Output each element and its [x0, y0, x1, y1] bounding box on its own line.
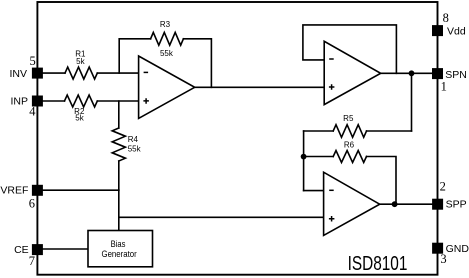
pin pad SPN (1): [432, 68, 443, 79]
op-amp U1: [139, 56, 195, 118]
svg-text:R3: R3: [160, 20, 171, 29]
svg-text:SPP: SPP: [446, 199, 467, 211]
Bias Generator box: [88, 231, 153, 267]
U2 plus sign: [329, 84, 335, 90]
resistor R3: [151, 32, 184, 45]
pin pad CE (7): [32, 244, 43, 255]
pin pad GND (3): [432, 243, 443, 254]
svg-text:55k: 55k: [128, 145, 142, 154]
svg-text:INV: INV: [9, 68, 27, 80]
resistor R5: [333, 125, 366, 138]
U3 minus sign: [329, 189, 334, 191]
wire R5 horizontal leads: [304, 130, 412, 132]
wire VREF node down to Bias Generator: [118, 190, 120, 230]
wire VREF pin to R4 bottom node: [43, 189, 119, 191]
U1 minus sign: [144, 71, 149, 73]
wire INV input to op-amp U1 inverting input: [43, 72, 139, 74]
svg-text:3: 3: [440, 252, 446, 266]
wire R3 feedback: from U1 inverting node up and across to U1 output: [119, 39, 211, 88]
svg-text:Vdd: Vdd: [447, 26, 466, 38]
U2 minus sign: [329, 58, 334, 60]
svg-text:CE: CE: [14, 244, 29, 256]
op-amp U3: [324, 172, 380, 235]
wire U3 output to SPP pin: [380, 203, 432, 205]
wire U2 feedback loop (output to inverting input): [303, 25, 397, 73]
pin pad Vdd (8): [432, 25, 443, 36]
wire CE pin to Bias Generator: [43, 248, 88, 250]
svg-text:2: 2: [440, 179, 446, 193]
svg-text:8: 8: [443, 11, 449, 25]
wire R4 vertical: from INP node down to VREF node: [118, 101, 120, 190]
junction dot SPN node: [409, 70, 415, 76]
svg-text:6: 6: [29, 197, 35, 211]
svg-text:1: 1: [441, 79, 447, 93]
wire SPN node down to R5: [411, 73, 413, 131]
resistor R1: [65, 67, 97, 79]
wire INP input to op-amp U1 non-inverting input: [43, 100, 139, 102]
svg-text:VREF: VREF: [0, 185, 28, 197]
svg-text:55k: 55k: [160, 49, 174, 58]
wire R6 leads: from node to R6 and down to U3 output: [304, 157, 396, 205]
svg-text:5k: 5k: [75, 114, 84, 123]
wire VREF node to op-amp U3 non-inverting input: [119, 216, 324, 218]
junction dot SPP node: [392, 201, 398, 207]
svg-text:R6: R6: [344, 141, 355, 150]
svg-text:7: 7: [29, 254, 35, 268]
resistor R4: [112, 128, 125, 161]
wire left node vertical R5 to U3 inverting level: [303, 131, 305, 191]
svg-text:GND: GND: [446, 243, 469, 255]
svg-text:R5: R5: [343, 114, 354, 123]
op-amp U2: [324, 41, 380, 104]
svg-text:5k: 5k: [76, 57, 85, 66]
U3 plus sign: [329, 216, 335, 222]
wire U1 output to U2 non-inverting input: [195, 86, 325, 88]
svg-text:5: 5: [30, 54, 36, 68]
resistor R2: [65, 95, 98, 107]
svg-text:4: 4: [29, 105, 36, 119]
junction dot R5/R6 left node: [301, 154, 307, 160]
pin pad INV (5): [32, 68, 43, 79]
resistor R6: [333, 151, 366, 163]
pin pad VREF (6): [32, 185, 43, 196]
svg-text:Generator: Generator: [102, 249, 137, 260]
U1 plus sign: [143, 98, 149, 104]
svg-text:ISD8101: ISD8101: [348, 253, 408, 275]
wire U2 output to SPN pin: [381, 72, 432, 74]
svg-text:SPN: SPN: [445, 69, 467, 81]
pin pad SPP (2): [432, 199, 443, 210]
pin pad INP (4): [32, 96, 43, 107]
svg-text:R4: R4: [128, 135, 139, 144]
wire node to U3 inverting input: [304, 190, 324, 192]
svg-text:INP: INP: [10, 95, 28, 107]
